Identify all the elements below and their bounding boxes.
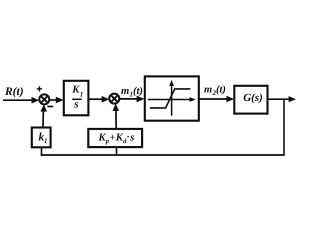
svg-text:m: m xyxy=(204,85,212,96)
wire output xyxy=(268,98,291,100)
wire S2 to saturation block xyxy=(119,98,138,100)
label plus S1 xyxy=(37,86,42,91)
wire feedback up to k1 xyxy=(41,147,43,156)
axis vertical xyxy=(171,83,173,116)
wire Kp block to S2 xyxy=(115,107,117,129)
fraction bar xyxy=(72,98,82,100)
wire S1 to K1/s xyxy=(49,99,57,101)
block k1 xyxy=(32,128,51,148)
summing junction S1 xyxy=(39,94,49,104)
wire input R(t) xyxy=(3,99,33,101)
wire feedback right vertical xyxy=(283,99,285,155)
svg-text:m: m xyxy=(121,86,129,97)
saturation block N xyxy=(145,76,199,120)
wire saturation to G(s) xyxy=(199,98,228,100)
wire K1/s to summer 2 xyxy=(89,98,104,100)
summing junction S2 xyxy=(109,94,119,104)
svg-text:+: + xyxy=(110,133,116,144)
svg-text:1: 1 xyxy=(44,137,48,145)
svg-text:(t): (t) xyxy=(216,85,226,96)
saturation curve xyxy=(150,89,191,108)
svg-text:1: 1 xyxy=(80,91,84,99)
wire k1 to S1 xyxy=(42,108,44,127)
svg-text:s: s xyxy=(73,98,78,110)
node arrow into summer 1 xyxy=(32,97,40,104)
svg-text:s: s xyxy=(129,133,134,144)
axis horizontal xyxy=(148,99,191,101)
svg-text:G(s): G(s) xyxy=(243,92,263,104)
block K1/s xyxy=(64,81,89,116)
wire feedback bottom horizontal xyxy=(41,154,285,156)
wire feedback up to Kp block xyxy=(116,147,118,156)
svg-text:R(t): R(t) xyxy=(4,86,24,98)
label minus S1 xyxy=(47,106,53,108)
svg-text:(t): (t) xyxy=(133,86,143,97)
block G(s) xyxy=(234,86,267,114)
block Kp+Kd*s xyxy=(88,129,142,147)
